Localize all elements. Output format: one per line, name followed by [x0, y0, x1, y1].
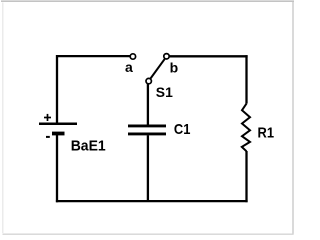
wire top-right horizontal (b to right rail) — [169, 55, 248, 57]
node a terminal circle — [130, 54, 135, 59]
battery BaE1 positive plate — [39, 122, 77, 125]
svg-text:S1: S1 — [156, 84, 173, 100]
wire right vertical lower (resistor to bottom rail) — [245, 151, 247, 202]
battery BaE1 negative plate — [52, 132, 65, 136]
battery - polarity mark — [46, 136, 50, 138]
switch S1 pole terminal circle — [146, 78, 151, 83]
svg-text:a: a — [125, 59, 133, 75]
svg-text:BaE1: BaE1 — [71, 138, 106, 155]
svg-text:C1: C1 — [174, 121, 191, 138]
wire left vertical lower (battery - to bottom rail) — [56, 135, 58, 202]
capacitor C1 bottom plate — [128, 132, 166, 135]
capacitor C1 top plate — [128, 124, 166, 127]
svg-text:b: b — [170, 59, 179, 75]
wire right vertical upper (to resistor) — [245, 55, 247, 103]
wire capacitor to bottom rail — [147, 135, 149, 202]
resistor R1 zigzag — [242, 104, 250, 152]
switch S1 lever (pole to b) — [150, 59, 165, 79]
battery + polarity mark — [44, 114, 51, 121]
wire left vertical upper (top wire to battery +) — [56, 55, 58, 123]
wire switch pole down to capacitor — [147, 84, 149, 125]
wire top-left horizontal (battery + to node a) — [57, 55, 130, 57]
svg-text:R1: R1 — [258, 124, 275, 141]
wire bottom rail — [56, 200, 248, 202]
node b terminal circle — [164, 54, 169, 59]
